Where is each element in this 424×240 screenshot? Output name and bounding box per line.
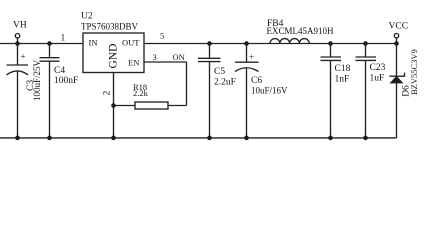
svg-text:2: 2 [103,91,113,96]
svg-text:TPS76038DBV: TPS76038DBV [81,22,139,32]
svg-text:C4: C4 [54,66,65,76]
svg-text:ON: ON [173,52,185,62]
op-amp U2 TPS76038DBV regulator box [81,12,144,73]
capacitor C18 [321,44,351,139]
svg-text:VH: VH [13,21,27,31]
svg-text:100nF: 100nF [54,76,78,86]
node junction bus C5 [207,136,212,141]
wire EN pin 3 [144,62,187,106]
wire top rail right (U2 OUT to VCC) [144,43,397,45]
svg-text:+: + [249,52,254,62]
svg-text:BZV55C3V9: BZV55C3V9 [409,49,419,95]
svg-text:10uF/16V: 10uF/16V [251,86,288,96]
svg-text:GND: GND [108,44,120,69]
node junction VH/C3 [15,41,20,46]
svg-text:EN: EN [128,58,139,68]
wire ground bus [0,137,397,139]
node junction bus C3 [15,136,20,141]
svg-text:C6: C6 [251,76,262,86]
inductor FB4 EXCML45A910H [267,19,334,44]
node junction bus pin2 [111,136,116,141]
svg-text:IN: IN [89,38,98,48]
wire U2 GND pin 2 [113,73,115,139]
svg-text:2.2uF: 2.2uF [214,78,236,88]
svg-text:OUT: OUT [122,38,140,48]
terminal VCC [389,22,409,44]
svg-text:1nF: 1nF [335,75,350,85]
svg-text:3: 3 [153,52,157,62]
capacitor C4 [40,44,79,139]
node junction bus C4 [47,136,52,141]
svg-text:2.2k: 2.2k [133,88,149,98]
node junction VCC/D6 [394,41,399,46]
svg-text:C18: C18 [335,64,351,74]
node junction C6/rail [244,41,249,46]
capacitor C6 [235,44,288,139]
svg-text:5: 5 [160,31,164,41]
node junction C23/rail [363,41,368,46]
node junction pin2/R18 [111,103,116,108]
terminal VH [13,21,27,44]
svg-text:C5: C5 [214,67,225,77]
node junction C18/rail [328,41,333,46]
diode D6 zener BZV55C3V9 [390,44,420,139]
capacitor C5 [198,44,236,139]
svg-text:1: 1 [61,34,66,44]
svg-text:VCC: VCC [389,22,409,32]
wire top rail left (VH to U2 pin 1) [0,43,83,45]
svg-text:+: + [21,52,26,62]
node junction bus C18 [328,136,333,141]
node junction bus C6 [244,136,249,141]
svg-text:C23: C23 [370,63,386,73]
resistor R18 [114,82,169,109]
svg-text:1uF: 1uF [370,74,385,84]
node junction bus C23 [363,136,368,141]
svg-text:100uF/25V: 100uF/25V [32,59,42,101]
node junction C5/rail [207,41,212,46]
svg-text:U2: U2 [81,12,93,22]
capacitor C3 [7,44,43,139]
svg-text:EXCML45A910H: EXCML45A910H [267,26,334,36]
node junction C4/rail [47,41,52,46]
capacitor C23 [356,44,386,139]
